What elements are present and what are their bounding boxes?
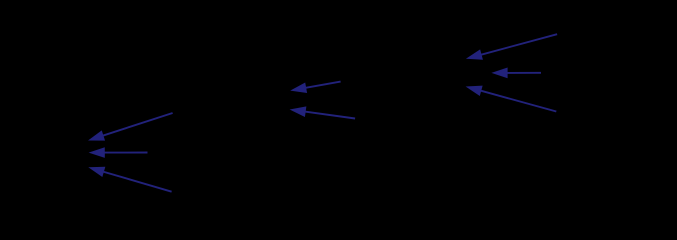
arrow A2 head	[89, 147, 105, 158]
arrow B1 head	[289, 82, 307, 95]
arrow B2 head	[289, 104, 307, 117]
arrow B2 wire	[303, 111, 355, 118]
arrow A1 head	[86, 130, 105, 145]
arrow C3 head	[464, 81, 482, 96]
arrow B1 wire	[304, 82, 341, 89]
arrow C3 wire	[479, 90, 557, 111]
arrow A3 head	[87, 162, 106, 177]
arrow C2 head	[491, 68, 507, 79]
arrow A2 wire	[102, 152, 147, 154]
arrow C1 head	[465, 49, 483, 64]
arrow C1 wire	[479, 34, 557, 55]
arrow C2 wire	[505, 72, 541, 74]
arrow A3 wire	[101, 171, 171, 192]
arrow A1 wire	[101, 113, 173, 136]
